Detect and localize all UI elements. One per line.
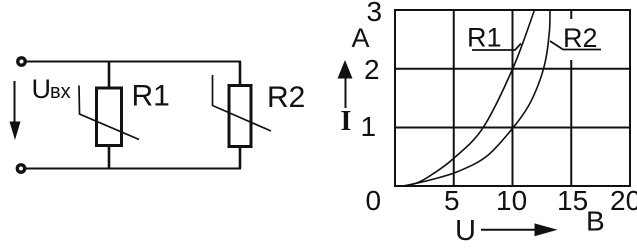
svg-text:0: 0 [366,185,382,216]
svg-text:вх: вх [50,81,71,103]
svg-text:R2: R2 [563,23,598,53]
svg-text:5: 5 [444,185,460,216]
svg-text:2: 2 [364,54,380,85]
svg-text:10: 10 [496,185,527,216]
svg-text:15: 15 [557,185,588,216]
svg-text:R1: R1 [467,23,502,53]
svg-text:B: B [586,206,605,237]
svg-text:U: U [455,215,476,247]
svg-text:R1: R1 [132,80,170,113]
svg-text:1: 1 [361,111,377,142]
svg-text:20: 20 [610,185,637,216]
svg-text:R2: R2 [267,81,305,114]
svg-text:U: U [32,74,52,104]
svg-text:A: A [352,23,370,53]
svg-text:I: I [341,106,352,137]
